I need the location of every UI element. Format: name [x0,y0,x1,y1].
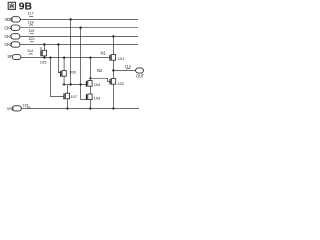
svg-text:N1: N1 [101,50,107,55]
node M junction N2 corner [89,77,91,79]
svg-text:118: 118 [28,20,34,24]
svg-text:113: 113 [125,64,131,68]
terminal SP [7,54,21,59]
node A junction VDD drop [69,18,71,20]
label 117 [28,11,34,17]
label 119 [28,29,34,34]
terminal CK1 [4,34,20,39]
svg-text:OUT: OUT [136,73,145,78]
wire VSS bus [21,108,139,110]
wire CK1 drop to transistor 101 drain [112,36,114,54]
node I junction 106 source rail [63,83,65,85]
transistor 102 [110,71,125,109]
wire VDD bus [20,18,138,20]
terminal CK2 [4,42,20,47]
wire N1 drop to gate of 107 [50,58,64,97]
node J junction VDD on rail [69,83,71,85]
svg-text:114: 114 [27,49,33,53]
node L junction N1 drop to N2 [89,57,91,59]
svg-text:103: 103 [94,95,101,100]
wire CK4 drop to gate of 103 [81,28,87,100]
svg-text:106: 106 [69,70,76,75]
svg-text:102: 102 [117,81,124,86]
transistor 103 [87,94,102,109]
node C junction CK1 drop [112,35,114,37]
terminal VSS [7,106,22,111]
node Q junction CK4 crossing on rail [80,83,82,85]
wire rail to gate of 104 [62,84,86,86]
node F junction 105 source on N1 [43,57,45,59]
label 113 [125,64,131,69]
wire CK4 bus [20,27,138,29]
transistor 101 [110,55,125,71]
node P junction 102 source on VSS [112,107,114,109]
node G junction N1 drop to 107 gate [49,57,51,59]
svg-text:104: 104 [94,82,101,87]
svg-text:119: 119 [28,29,34,33]
wire node N2 horizontal [90,78,110,81]
svg-text:N2: N2 [97,68,103,73]
svg-text:105: 105 [40,59,47,64]
wire node N1 horizontal [21,57,110,59]
transistor 107 [64,85,78,109]
wire N1 to N2 vertical [89,58,91,79]
node E junction CK2 drop [57,43,59,45]
svg-text:101: 101 [118,56,125,61]
node K junction 107 source on VSS [66,107,68,109]
terminal OUT [136,68,145,78]
transistor 104 [87,78,102,94]
transistor 106 [58,58,76,85]
node H junction 106 drain on N1 [63,57,65,59]
wire OUT horizontal [113,70,135,72]
wire CK2 bus [20,44,138,46]
terminal VDD [5,17,21,22]
svg-text:115: 115 [22,104,28,108]
label 120 [28,37,34,42]
svg-text:120: 120 [28,37,34,41]
title figure 9B box glyph [8,2,15,9]
label 118 [28,20,34,25]
wire CK2 drop to gate of 106 [58,45,59,73]
terminal CK4 [4,25,20,30]
node N junction 103 source on VSS [89,107,91,109]
transistor 105 [40,45,47,65]
node O junction output [112,69,114,71]
wire VDD vertical drop [70,19,72,84]
node B junction CK4 drop [79,27,81,29]
node D junction CK2 at 105 [43,43,45,45]
svg-text:107: 107 [70,94,77,99]
svg-text:117: 117 [28,11,34,15]
label 115 [22,104,30,108]
label 114 [27,49,33,55]
wire CK1 bus [20,35,138,37]
